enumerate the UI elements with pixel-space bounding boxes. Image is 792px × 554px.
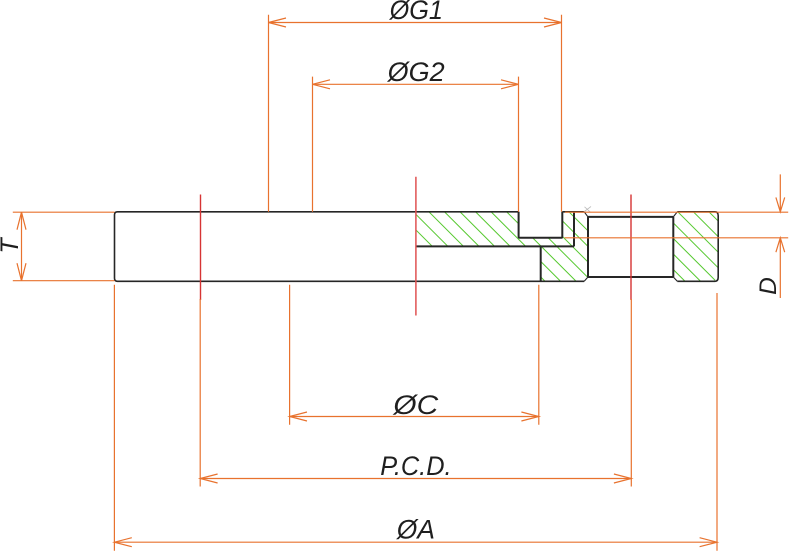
dim G1 line [269, 22, 562, 24]
dim T arrows [17, 212, 26, 281]
hatch fill: top band of section (right half) [416, 212, 588, 247]
dim G2 extension lines [313, 77, 519, 212]
dim D extension lines [565, 212, 789, 238]
svg-text:ØC: ØC [392, 390, 439, 420]
dim A line [114, 541, 717, 543]
dim C arrows [290, 412, 539, 421]
svg-text:ØG2: ØG2 [387, 57, 445, 87]
svg-text:P.C.D.: P.C.D. [380, 451, 451, 481]
dim A arrows [114, 538, 717, 547]
dim G2 line [313, 83, 519, 85]
recess wall [540, 246, 542, 281]
svg-text:D: D [755, 277, 782, 295]
centerline left bolt hole [200, 195, 202, 301]
bolt hole tapped bore [588, 217, 673, 277]
step vertical line [573, 212, 575, 247]
dim G2 arrows [313, 80, 519, 89]
bore ceiling line [416, 245, 574, 247]
flange bottom edge [118, 280, 716, 282]
centerline flange axis [415, 177, 417, 316]
flange right edge [715, 212, 718, 281]
dim G1 arrows [269, 18, 562, 27]
dim C line [290, 416, 539, 418]
dim PCD extension lines [200, 299, 631, 487]
dim G1 extension lines [269, 15, 562, 212]
bolt hole chamfers [584, 212, 677, 281]
svg-text:ØG1: ØG1 [389, 0, 443, 25]
dim PCD arrows [200, 474, 631, 483]
dim D lower leader with up arrow [776, 238, 785, 298]
dim PCD line [200, 478, 631, 480]
flange top edge [118, 211, 716, 213]
flange left edge [115, 212, 118, 281]
hatch fill: right block beyond bolt hole [673, 212, 718, 281]
dim A extension lines [114, 285, 717, 551]
dim C extension lines [290, 285, 539, 425]
gasket groove [519, 212, 563, 238]
thread chamfer mark [583, 207, 591, 213]
svg-text:T: T [0, 237, 24, 254]
svg-text:ØA: ØA [396, 515, 435, 545]
dim T extension lines [13, 212, 115, 281]
centerline right bolt hole [630, 195, 632, 301]
hatch fill: lower band between recess wall and bolt hole [541, 246, 588, 281]
dim D upper leader with down arrow [776, 174, 785, 211]
dim T line [21, 212, 23, 281]
